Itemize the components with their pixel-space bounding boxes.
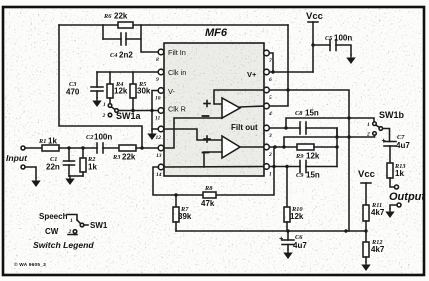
- node loop join: [140, 146, 143, 149]
- wire SW1a common to Clk R pin 11: [118, 110, 158, 112]
- ground: [361, 262, 370, 271]
- resistor R12: [363, 231, 385, 262]
- wire pin3 upper branch: [286, 118, 349, 128]
- capacitor C6 electrolytic: [279, 231, 307, 250]
- svg-text:Input: Input: [6, 153, 28, 163]
- wire V- pin 10 to ground: [152, 91, 159, 132]
- pin 11 Clk R: [155, 105, 186, 122]
- pin 13: [156, 145, 164, 159]
- svg-text:MF6: MF6: [205, 27, 228, 39]
- svg-text:4u7: 4u7: [293, 241, 307, 250]
- resistor R2: [69, 148, 97, 176]
- capacitor C7 electrolytic: [382, 134, 411, 163]
- capacitor C5: [313, 34, 352, 56]
- svg-text:470: 470: [66, 88, 80, 97]
- ground: [385, 209, 394, 218]
- svg-text:13: 13: [156, 153, 162, 159]
- svg-text:© WA 9605_3: © WA 9605_3: [14, 261, 46, 268]
- Vcc rail: [306, 11, 323, 72]
- node crossing: [150, 109, 153, 112]
- svg-text:3: 3: [268, 133, 272, 139]
- resistor R11: [363, 202, 385, 231]
- pin 2: [264, 144, 272, 158]
- svg-text:C5: C5: [325, 35, 332, 42]
- svg-text:6: 6: [269, 77, 272, 83]
- svg-text:R3: R3: [112, 154, 120, 161]
- svg-text:15n: 15n: [305, 109, 319, 118]
- resistor R1: [38, 137, 59, 152]
- resistor R4: [107, 72, 128, 104]
- svg-text:C7: C7: [397, 134, 405, 141]
- Vcc divider rail: [358, 169, 375, 205]
- svg-text:Filt out: Filt out: [231, 123, 258, 132]
- svg-text:2n2: 2n2: [119, 51, 133, 60]
- wire top rail down to pin 4: [269, 25, 288, 106]
- svg-text:14: 14: [156, 172, 162, 178]
- pin 1: [264, 164, 272, 178]
- wire top feedback rail: [59, 24, 118, 26]
- svg-text:Speech: Speech: [39, 212, 68, 221]
- svg-text:V+: V+: [247, 70, 257, 79]
- node: [67, 146, 70, 149]
- pin 3 Filt out: [231, 123, 272, 139]
- svg-text:47k: 47k: [201, 199, 215, 208]
- svg-text:2: 2: [366, 132, 370, 138]
- pin 8 Filt In: [156, 48, 186, 63]
- capacitor C8: [269, 109, 337, 138]
- svg-text:C2: C2: [86, 134, 93, 141]
- resistor R6: [103, 12, 133, 29]
- svg-text:4k7: 4k7: [371, 208, 385, 217]
- svg-text:1: 1: [70, 218, 73, 224]
- ground: [92, 98, 101, 107]
- capacitor C2: [86, 133, 119, 154]
- node: [81, 146, 84, 149]
- pin 7: [264, 50, 272, 64]
- svg-text:Filt In: Filt In: [168, 48, 186, 57]
- wire left loop: [59, 25, 142, 148]
- capacitor C9: [269, 161, 337, 180]
- svg-text:C9: C9: [296, 172, 304, 179]
- svg-text:Vcc: Vcc: [306, 11, 323, 22]
- svg-text:1: 1: [269, 172, 272, 178]
- wire pin5 row to SW1b pos1: [269, 88, 349, 118]
- svg-text:R1: R1: [38, 138, 46, 145]
- svg-text:V-: V-: [168, 87, 175, 96]
- svg-text:8: 8: [156, 57, 159, 63]
- node R7 top: [174, 193, 177, 196]
- pin 4: [264, 103, 272, 117]
- wire pin6 row: [269, 71, 313, 73]
- wire pin14 to R8: [153, 167, 203, 195]
- ground: [346, 55, 355, 64]
- capacitor C4: [103, 25, 141, 60]
- wire input row: [25, 147, 42, 149]
- capacitor C3: [66, 72, 103, 98]
- svg-text:CW: CW: [45, 227, 59, 236]
- svg-text:1k: 1k: [88, 163, 97, 172]
- svg-text:12: 12: [156, 135, 162, 141]
- resistor R9: [269, 144, 338, 161]
- wire pin 12 stub: [152, 128, 159, 130]
- svg-text:22k: 22k: [122, 153, 136, 162]
- svg-text:4: 4: [268, 111, 272, 117]
- svg-text:12k: 12k: [306, 152, 320, 161]
- svg-text:Clk R: Clk R: [168, 105, 186, 114]
- wire clock RC rail: [97, 71, 159, 73]
- svg-text:30k: 30k: [137, 87, 151, 96]
- svg-text:39k: 39k: [178, 212, 192, 221]
- wire: [59, 147, 97, 149]
- wire right column C8-R9-C9: [336, 128, 338, 167]
- switch legend SW1: [33, 212, 108, 250]
- pin 12: [156, 126, 164, 141]
- svg-text:22n: 22n: [46, 163, 60, 172]
- svg-text:R8: R8: [204, 185, 213, 192]
- svg-text:7: 7: [269, 58, 272, 64]
- svg-text:4k7: 4k7: [371, 245, 385, 254]
- wire SW1b common to C7: [383, 129, 390, 142]
- wire bottom bias rail: [176, 229, 368, 232]
- input lower terminal: [21, 165, 36, 178]
- svg-text:+: +: [279, 234, 284, 243]
- svg-text:11: 11: [155, 116, 160, 122]
- capacitor C1: [46, 148, 75, 176]
- svg-text:2: 2: [268, 152, 272, 158]
- pin 5: [264, 87, 272, 101]
- svg-text:R6: R6: [103, 13, 112, 20]
- output terminal: [389, 185, 426, 203]
- svg-text:1k: 1k: [48, 137, 57, 146]
- ground: [31, 178, 40, 187]
- ground: [283, 250, 292, 259]
- svg-text:9: 9: [156, 77, 159, 83]
- svg-text:SW1: SW1: [90, 221, 108, 230]
- svg-text:Vcc: Vcc: [358, 169, 375, 180]
- svg-text:SW1b: SW1b: [379, 110, 405, 120]
- switch SW1b: [366, 110, 405, 138]
- node R5 bottom: [131, 109, 134, 112]
- op-amp U1 MF6 package: [164, 27, 264, 176]
- wire SW vertical to bottom rail: [349, 118, 374, 122]
- resistor R8: [201, 185, 216, 208]
- wire to Filt In pin 8: [141, 25, 159, 52]
- node: [271, 70, 274, 73]
- svg-text:C6: C6: [295, 234, 303, 241]
- svg-text:1: 1: [103, 102, 106, 108]
- svg-text:22k: 22k: [114, 12, 128, 21]
- op-amp A1: [165, 90, 264, 148]
- op-amp A2: [165, 129, 264, 167]
- svg-text:2: 2: [102, 113, 106, 119]
- copyright note: [14, 261, 46, 268]
- pin 14: [156, 164, 164, 178]
- svg-text:Output: Output: [389, 191, 426, 203]
- wire pin1 down to R10: [286, 167, 288, 208]
- svg-text:100n: 100n: [334, 34, 352, 43]
- wire pin2 down to R8 row: [216, 147, 274, 195]
- resistor R3: [112, 145, 159, 162]
- switch SW1a: [102, 102, 142, 121]
- output lower terminal: [390, 203, 401, 209]
- svg-text:C4: C4: [110, 52, 117, 59]
- ground: [147, 131, 156, 140]
- svg-text:Switch Legend: Switch Legend: [33, 240, 94, 250]
- resistor R7: [173, 195, 192, 231]
- pin 6 V+: [247, 69, 272, 83]
- pin 9 Clk in: [156, 68, 186, 83]
- resistor R13: [387, 163, 406, 187]
- resistor R5: [130, 72, 151, 111]
- svg-text:12k: 12k: [114, 87, 128, 96]
- input terminal: [6, 146, 28, 163]
- svg-text:1k: 1k: [395, 169, 404, 178]
- ground: [65, 176, 74, 185]
- pin 10 V-: [155, 87, 175, 102]
- wire pos2 row: [284, 135, 375, 147]
- svg-text:15n: 15n: [306, 171, 320, 180]
- svg-text:10: 10: [155, 96, 161, 102]
- node: [311, 43, 314, 46]
- resistor R10: [284, 206, 304, 231]
- svg-text:12k: 12k: [290, 212, 304, 221]
- svg-text:SW1a: SW1a: [116, 111, 142, 121]
- wire pin7 to V+: [269, 53, 273, 72]
- svg-text:100n: 100n: [94, 133, 112, 142]
- svg-text:5: 5: [269, 95, 272, 101]
- svg-text:C8: C8: [295, 110, 303, 117]
- svg-text:4u7: 4u7: [396, 141, 410, 150]
- svg-text:Clk in: Clk in: [168, 68, 186, 77]
- svg-text:R9: R9: [295, 153, 304, 160]
- svg-text:+: +: [382, 136, 387, 145]
- svg-text:1: 1: [367, 122, 370, 128]
